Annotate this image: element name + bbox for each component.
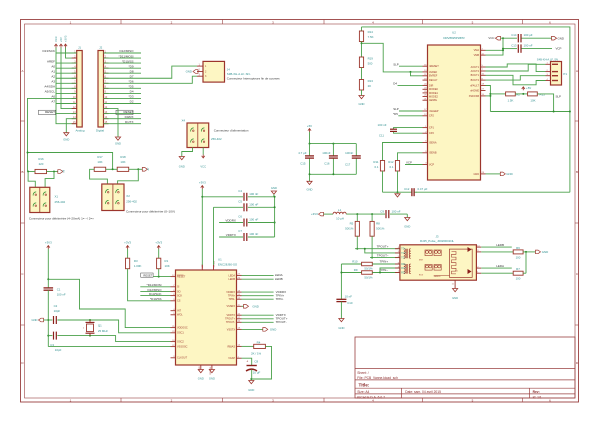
- svg-text:A: A: [576, 69, 578, 73]
- svg-text:RESET: RESET: [177, 276, 186, 279]
- svg-text:WOL: WOL: [177, 314, 183, 317]
- wire L1 to C9: [346, 213, 385, 215]
- wire ISENB to R12: [398, 153, 423, 161]
- ground under J2: [115, 137, 121, 146]
- label RESET (J1 pin13): [39, 110, 77, 115]
- power flag +5V at C15: [307, 124, 312, 132]
- wire C10 to GND: [340, 302, 342, 319]
- J3 reference: [435, 234, 438, 238]
- svg-text:GND: GND: [452, 296, 458, 300]
- capacitor C4: [202, 189, 274, 201]
- svg-text:XSDCSB: XSDCSB: [469, 95, 480, 98]
- svg-text:D4: D4: [393, 81, 397, 85]
- svg-text:A: A: [21, 69, 23, 73]
- wire R11 bottom to gnd rail: [382, 171, 384, 192]
- wire OSC1 net: [57, 319, 170, 333]
- label GND at VSSTX: [242, 327, 277, 331]
- svg-text:GND: GND: [186, 70, 192, 74]
- svg-text:MODE1: MODE1: [429, 92, 439, 95]
- J4 description text: [227, 77, 280, 81]
- svg-text:256-402: 256-402: [211, 137, 222, 141]
- svg-text:RESET: RESET: [123, 110, 133, 114]
- resistor R19: [359, 57, 373, 68]
- ground under C10: [338, 319, 344, 331]
- svg-text:VCP: VCP: [429, 163, 434, 166]
- svg-text:GND: GND: [542, 250, 548, 254]
- svg-text:100 nF: 100 nF: [249, 202, 258, 206]
- resistor R9: [341, 268, 373, 279]
- svg-text:GND: GND: [404, 224, 410, 228]
- label +3V3 at L1: [311, 212, 333, 216]
- svg-text:A7: A7: [51, 100, 55, 104]
- U2 value DRV8825PWPR: [443, 36, 464, 40]
- svg-text:100 nF: 100 nF: [249, 192, 258, 196]
- svg-text:500: 500: [368, 62, 373, 66]
- X2 reference and value: [126, 194, 137, 203]
- svg-text:ISENB: ISENB: [429, 152, 437, 155]
- svg-text:X2: X2: [126, 194, 130, 198]
- svg-text:SHIELD: SHIELD: [434, 276, 441, 278]
- svg-text:BOUT1: BOUT1: [471, 74, 480, 77]
- wire RESET to U1: [153, 269, 170, 278]
- wire R7 to junction: [523, 272, 526, 274]
- svg-text:ENC28J60-SO: ENC28J60-SO: [218, 263, 238, 267]
- svg-text:25 MHz: 25 MHz: [98, 329, 109, 333]
- capacitor C6 with VDDRX label: [219, 215, 275, 227]
- svg-text:7.5K: 7.5K: [368, 35, 374, 39]
- wire TPIN- net: [372, 268, 400, 272]
- P1 reference: [563, 72, 567, 76]
- svg-text:RBIAS: RBIAS: [227, 345, 235, 348]
- svg-text:ISENA: ISENA: [429, 141, 437, 144]
- svg-text:RESET: RESET: [45, 110, 55, 114]
- resistor R3: [126, 249, 142, 269]
- svg-text:CP2: CP2: [429, 115, 434, 118]
- svg-text:Connecteur Interrupteurs fin d: Connecteur Interrupteurs fin de courses: [227, 77, 280, 81]
- svg-text:TCT: TCT: [401, 253, 406, 255]
- svg-text:TPIN-: TPIN-: [276, 297, 284, 301]
- capacitor C16: [322, 144, 338, 175]
- svg-text:C6: C6: [238, 215, 242, 219]
- svg-text:GND: GND: [506, 172, 512, 176]
- resistor R18: [117, 155, 129, 172]
- svg-text:*D5: *D5: [128, 85, 133, 89]
- U1 TX wires and labels: [242, 313, 288, 324]
- U2 reference: [452, 30, 456, 34]
- capacitor C1: [44, 287, 66, 296]
- svg-text:TPIN−: TPIN−: [380, 268, 389, 272]
- svg-text:R5: R5: [350, 222, 354, 226]
- capacitor C2: [48, 304, 60, 324]
- ground under U1 VSS: [198, 370, 204, 381]
- svg-text:VCC: VCC: [488, 36, 494, 40]
- svg-text:Connecteur pour débitmètre (4–: Connecteur pour débitmètre (4–20mA) 1= −…: [29, 217, 94, 221]
- svg-text:J1: J1: [78, 46, 81, 50]
- wire TCT hook: [364, 248, 400, 253]
- wire net A6 from J1 pin10 to R16: [28, 98, 57, 171]
- op-amp U2 body DRV8825PWPR: [428, 45, 481, 180]
- svg-text:X1: X1: [55, 195, 59, 199]
- svg-text:DECAY: DECAY: [429, 79, 438, 82]
- svg-text:R16: R16: [38, 157, 44, 161]
- svg-text:*D10/SS: *D10/SS: [150, 297, 162, 301]
- resistor R10: [341, 259, 373, 270]
- wire TVDDA riser: [213, 207, 215, 265]
- ethernet magjack J3 body: [400, 245, 477, 280]
- power flag VCC: [54, 36, 58, 47]
- svg-text:1.5K: 1.5K: [508, 98, 514, 102]
- svg-text:U2: U2: [452, 30, 456, 34]
- svg-text:D0/RX: D0/RX: [125, 115, 134, 119]
- svg-text:10K: 10K: [97, 160, 102, 164]
- wire VCC to J1 pin15: [56, 48, 77, 124]
- svg-text:C5: C5: [238, 200, 242, 204]
- X1 description: [29, 217, 94, 221]
- svg-text:GND: GND: [115, 142, 121, 146]
- label GND at U2 pin28: [500, 172, 512, 176]
- wire R3 to CS net: [128, 269, 171, 301]
- svg-text:100nF: 100nF: [322, 151, 330, 155]
- svg-text:VCC: VCC: [54, 36, 58, 42]
- svg-text:J3: J3: [435, 234, 438, 238]
- svg-text:+5V: +5V: [307, 124, 312, 128]
- svg-text:LEDB: LEDB: [228, 278, 235, 281]
- power flag +5V at R2: [522, 86, 532, 90]
- resistor R6: [513, 246, 523, 260]
- wire TPOUT+ net: [355, 244, 400, 248]
- svg-text:C13: C13: [511, 44, 517, 48]
- svg-text:C10: C10: [347, 301, 353, 305]
- svg-text:GND: GND: [209, 377, 215, 381]
- label VCP right of C13: [556, 47, 562, 51]
- capacitor C8 polarized: [246, 359, 260, 379]
- wire R12 bottom to gnd rail: [397, 171, 399, 193]
- wire J3 pin1 to R7: [481, 272, 513, 274]
- capacitor C12: [404, 187, 428, 196]
- wire R8 to TPOUT-: [371, 236, 373, 258]
- inductor L1: [333, 208, 346, 221]
- X4 value 256-402: [211, 137, 222, 141]
- svg-text:+3V3: +3V3: [311, 212, 318, 216]
- svg-text:VDDOSC: VDDOSC: [177, 327, 188, 330]
- svg-text:nHOME: nHOME: [470, 89, 479, 92]
- svg-text:TD+: TD+: [401, 249, 406, 251]
- ground at R12: [383, 192, 411, 197]
- svg-text:220: 220: [39, 162, 44, 166]
- svg-text:+3V3: +3V3: [199, 180, 206, 184]
- wire R5 to TPOUT+: [356, 236, 358, 250]
- svg-text:DRV8825PWPR: DRV8825PWPR: [443, 36, 464, 40]
- resistor R12: [388, 160, 399, 171]
- power flag +3V3 left rail: [45, 240, 52, 249]
- wire R17-R18 junction: [106, 168, 118, 170]
- svg-text:256-402: 256-402: [126, 199, 137, 203]
- svg-text:Connecteur pour débitmètre (0–: Connecteur pour débitmètre (0–10V): [126, 209, 175, 213]
- svg-text:100 nF: 100 nF: [57, 293, 66, 297]
- svg-text:D13/SCK: D13/SCK: [149, 292, 162, 296]
- svg-text:A1: A1: [51, 69, 55, 73]
- svg-text:50/1%: 50/1%: [364, 267, 373, 271]
- wire A6 bus to R17 junction: [28, 153, 113, 170]
- power flag +3V3 at R1: [155, 240, 162, 249]
- wire LEDB net: [481, 243, 512, 247]
- svg-text:+3V3: +3V3: [45, 240, 52, 244]
- svg-text:C12: C12: [404, 187, 410, 191]
- svg-text:A0: A0: [51, 64, 55, 68]
- U1 SPI wires and labels: [140, 283, 170, 296]
- svg-text:GND: GND: [359, 102, 365, 106]
- wire VCAP to C8: [242, 358, 252, 365]
- wire VSSOSC to gnd rail: [48, 346, 170, 348]
- wire D7 to J4 pin1: [141, 66, 197, 78]
- svg-text:SLP: SLP: [393, 107, 399, 111]
- svg-text:C4: C4: [238, 189, 242, 193]
- wire R16 right to X1 pin2: [45, 172, 54, 188]
- wire OSC2 net: [57, 335, 170, 342]
- label VCP at U2 VCP pin: [405, 160, 423, 164]
- wire RBIAS to R4: [242, 345, 254, 347]
- svg-text:*D11/MOSI: *D11/MOSI: [147, 283, 162, 287]
- svg-text:KiCad E.D.A. 6.0.7: KiCad E.D.A. 6.0.7: [357, 395, 385, 399]
- wire C5-C7 gnd riser: [274, 196, 276, 237]
- svg-text:GND: GND: [338, 326, 344, 330]
- wire LEDA net: [481, 264, 512, 268]
- svg-text:VSSOSC: VSSOSC: [177, 346, 188, 349]
- wire J1 pin14 to GND: [66, 119, 76, 133]
- svg-text:TPOUT-: TPOUT-: [276, 320, 287, 324]
- svg-text:Size: A4: Size: A4: [357, 390, 369, 394]
- resistor R15: [528, 92, 546, 102]
- wire C12 to right rail: [417, 191, 570, 193]
- svg-text:4.7 µF: 4.7 µF: [298, 151, 306, 155]
- svg-text:Sheet: /: Sheet: /: [357, 371, 368, 375]
- svg-text:+: +: [246, 360, 248, 364]
- svg-text:R11: R11: [373, 160, 378, 164]
- wire BOUT1 to P1 pin4: [486, 75, 546, 85]
- wire BOUT2 to P1 pin3: [486, 76, 546, 80]
- svg-text:10K: 10K: [120, 160, 125, 164]
- svg-text:GND: GND: [32, 318, 38, 322]
- svg-text:A2: A2: [51, 74, 55, 78]
- capacitor C14: [511, 33, 552, 42]
- wire to R2: [490, 93, 505, 95]
- svg-text:10K: 10K: [530, 98, 535, 102]
- svg-text:VDDTX: VDDTX: [227, 314, 236, 317]
- wire +3V3 rail down: [47, 249, 49, 288]
- svg-text:2K: 2K: [368, 84, 372, 88]
- svg-text:R18: R18: [120, 155, 126, 159]
- svg-text:VSSTX: VSSTX: [227, 328, 236, 331]
- svg-text:50/1%: 50/1%: [364, 275, 373, 279]
- U1 reference: [218, 257, 222, 261]
- ground under C8: [248, 381, 254, 393]
- power flag +3V3: [64, 35, 68, 47]
- svg-text:AENBL: AENBL: [429, 99, 438, 102]
- svg-text:100: 100: [516, 277, 521, 281]
- wire TPOUT- net: [370, 253, 400, 257]
- U1 left pins: [171, 275, 188, 360]
- label GND at R6: [536, 250, 549, 254]
- U1 LED wires and labels: [242, 273, 283, 281]
- connector J1 (Analog): [72, 46, 85, 133]
- U1 value ENC28J60-SO: [218, 263, 238, 267]
- svg-text:100 nF: 100 nF: [392, 209, 401, 213]
- capacitor C3: [48, 332, 61, 352]
- svg-text:CP2: CP2: [429, 132, 434, 135]
- svg-text:C16: C16: [324, 162, 330, 166]
- wire nFAULT down: [486, 86, 492, 112]
- U2 right pins: [469, 49, 486, 176]
- wire R16 left: [27, 171, 35, 173]
- wire R15 to SLP net: [537, 94, 553, 112]
- svg-text:Q1: Q1: [98, 323, 102, 327]
- svg-text:100nF: 100nF: [345, 151, 353, 155]
- svg-text:D4: D4: [130, 90, 134, 94]
- svg-text:GND: GND: [63, 137, 69, 141]
- wire R14-R19: [361, 42, 363, 58]
- power flag +3V3 at U1 VDD: [199, 180, 206, 189]
- connector P1: [546, 62, 562, 86]
- svg-text:LEDB: LEDB: [496, 243, 504, 247]
- wire XSD to vertical: [486, 95, 491, 97]
- label *D5 at U2 CP2: [393, 112, 422, 116]
- wire R18 right to label: [129, 168, 143, 170]
- resistor R2: [506, 92, 521, 102]
- svg-text:AVREF: AVREF: [429, 71, 438, 74]
- label GND right of C14: [552, 36, 564, 40]
- wire +3V3 to J1 pin2: [66, 48, 77, 59]
- junction on A6 wire: [27, 152, 29, 154]
- svg-text:S3B-XH-A.LF..SN..: S3B-XH-A.LF..SN..: [227, 72, 252, 76]
- svg-text:*D3: *D3: [128, 95, 133, 99]
- svg-text:100: 100: [516, 255, 521, 259]
- connector J2 (Digital): [96, 46, 109, 133]
- svg-text:+3V3: +3V3: [124, 240, 131, 244]
- svg-text:VCP: VCP: [406, 160, 412, 164]
- ground under R13: [359, 96, 365, 107]
- svg-text:10K: 10K: [165, 264, 170, 268]
- wire ISENA to R11: [383, 143, 423, 161]
- svg-text:X4: X4: [181, 119, 185, 123]
- svg-text:VDDRX: VDDRX: [226, 291, 235, 294]
- svg-text:100 nF: 100 nF: [378, 123, 387, 127]
- ground under C15: [307, 181, 313, 191]
- svg-text:R6: R6: [516, 246, 520, 250]
- svg-text:10pF: 10pF: [55, 348, 62, 352]
- svg-text:File: PCB_Vanne.kicad_sch: File: PCB_Vanne.kicad_sch: [357, 376, 398, 380]
- wire R16 left to X1 pin1: [28, 172, 35, 188]
- wire J3 pin9 to R6: [481, 251, 513, 253]
- svg-text:GND: GND: [473, 173, 479, 176]
- wire R18 right to X2 pin2: [118, 169, 139, 184]
- svg-text:R3: R3: [134, 259, 138, 263]
- screw terminal X2: [102, 184, 124, 211]
- svg-text:C1: C1: [57, 287, 61, 291]
- svg-text:RESET: RESET: [143, 273, 152, 277]
- svg-text:+3V3: +3V3: [64, 35, 68, 42]
- wire SLP bottom rail: [490, 111, 571, 113]
- wire AOUT1 to P1 pin2: [486, 64, 546, 72]
- svg-text:D13/SCK: D13/SCK: [42, 49, 55, 53]
- svg-text:AREF: AREF: [47, 59, 55, 63]
- connector J4: [197, 61, 225, 82]
- svg-text:OSC1: OSC1: [177, 332, 184, 335]
- resistor R14: [359, 27, 373, 42]
- svg-text:GND: GND: [558, 36, 564, 40]
- X4 description: [214, 129, 249, 133]
- svg-text:GND: GND: [248, 388, 254, 392]
- wire RCT hook: [379, 268, 400, 274]
- wire R4 to gnd loop: [250, 346, 271, 380]
- svg-text:LEDA: LEDA: [228, 274, 235, 277]
- resistor R1: [157, 249, 170, 269]
- svg-text:SLP: SLP: [556, 94, 562, 98]
- J2 digital pin wires and labels: [104, 49, 142, 124]
- capacitor C7 with VDDTX label: [219, 229, 275, 241]
- svg-text:TPOUT+: TPOUT+: [377, 244, 389, 248]
- svg-text:nFAULT: nFAULT: [470, 84, 479, 87]
- wire R19-R13: [361, 68, 363, 80]
- svg-text:B: B: [576, 170, 578, 174]
- svg-text:C8: C8: [254, 359, 258, 363]
- X4 reference: [181, 119, 185, 123]
- resistor R11: [373, 160, 384, 171]
- svg-text:DIR: DIR: [429, 84, 434, 87]
- wire R6 R7 common: [525, 252, 527, 273]
- svg-text:VSSRX: VSSRX: [227, 305, 236, 308]
- label *D10/SS at CS: [150, 297, 162, 301]
- svg-text:D2: D2: [130, 100, 134, 104]
- svg-text:B: B: [21, 170, 23, 174]
- svg-text:R1: R1: [165, 259, 169, 263]
- ground under U1 VSSPLL: [209, 370, 215, 381]
- svg-text:10 nF: 10 nF: [345, 295, 353, 299]
- U1 bottom pins: [199, 365, 212, 375]
- svg-text:GND: GND: [252, 304, 258, 308]
- svg-text:Connecteur d'alimentation: Connecteur d'alimentation: [214, 129, 249, 133]
- svg-text:+5V: +5V: [526, 86, 531, 90]
- label A6 at R16: [58, 169, 66, 173]
- wire R2-R15 with +5V: [515, 93, 527, 95]
- capacitor C9: [380, 209, 407, 218]
- svg-text:D7: D7: [130, 74, 134, 78]
- svg-text:R4: R4: [257, 340, 261, 344]
- svg-text:CP1: CP1: [429, 127, 434, 130]
- title block: [355, 337, 575, 399]
- J3 right pins: [476, 245, 481, 273]
- wire J3 shield pin: [452, 280, 455, 288]
- power flag VCC at X4: [200, 155, 206, 169]
- svg-text:LEDB: LEDB: [275, 277, 283, 281]
- wire C15-C17 gnd rail: [309, 173, 357, 181]
- svg-text:R14: R14: [368, 30, 374, 34]
- capacitor C5: [214, 200, 275, 212]
- svg-text:J2: J2: [99, 46, 102, 50]
- svg-text:R19: R19: [368, 57, 374, 61]
- svg-text:R13: R13: [368, 79, 374, 83]
- svg-text:*D6: *D6: [128, 80, 133, 84]
- svg-text:10 µH: 10 µH: [336, 217, 344, 221]
- svg-text:TPIN-: TPIN-: [228, 298, 235, 301]
- svg-text:U1: U1: [218, 257, 222, 261]
- wire R16 right to label: [47, 171, 59, 173]
- svg-text:100 nF: 100 nF: [524, 44, 533, 48]
- wire X4 to GND: [182, 148, 193, 157]
- crystal Q1: [83, 320, 109, 336]
- label A7 at R18: [142, 167, 150, 171]
- label SLP at U2 nSLEEP: [393, 107, 422, 111]
- svg-text:+3V3: +3V3: [155, 240, 162, 244]
